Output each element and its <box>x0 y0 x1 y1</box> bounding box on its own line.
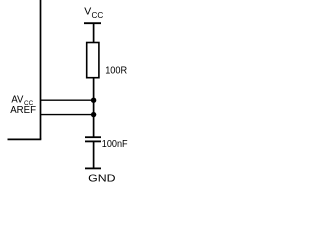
svg-text:AV: AV <box>11 95 23 106</box>
svg-text:100R: 100R <box>105 66 127 77</box>
chip bottom edge (MCU outline) <box>8 138 42 140</box>
capacitor C (100nF) top plate <box>85 136 101 138</box>
power symbol VCC bar <box>84 22 101 24</box>
wire VCC bar to resistor top <box>93 23 95 42</box>
svg-text:CC: CC <box>92 11 104 20</box>
junction dot AVCC node <box>91 98 96 103</box>
chip right edge (MCU outline) <box>40 0 42 139</box>
wire resistor bottom to capacitor top <box>93 78 95 137</box>
wire AREF pin to node <box>41 114 94 116</box>
svg-text:GND: GND <box>88 174 115 185</box>
svg-text:V: V <box>84 6 91 18</box>
ground symbol bar <box>85 167 101 169</box>
capacitor C (100nF) bottom plate <box>85 140 101 142</box>
junction dot AREF node <box>91 112 96 117</box>
wire capacitor bottom to ground <box>93 141 95 168</box>
wire AVCC pin to node <box>41 99 94 101</box>
resistor R (100R) body <box>87 43 99 78</box>
svg-text:100nF: 100nF <box>102 139 128 150</box>
svg-text:AREF: AREF <box>10 105 36 116</box>
